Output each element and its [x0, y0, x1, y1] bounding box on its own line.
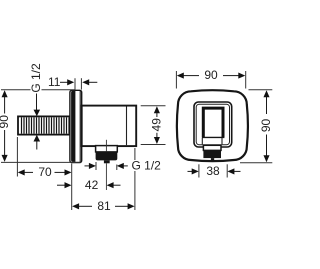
- centerline of outlet: [105, 140, 107, 152]
- outlet nub (side view) with G 1/2 thread: [96, 146, 118, 164]
- holder plate: [194, 102, 232, 147]
- extension line wall face: [71, 164, 73, 211]
- label G 1/2 (top, rotated) with leader to pipe: [29, 63, 43, 149]
- svg-text:11: 11: [48, 75, 61, 89]
- dimension 90 (top width): [176, 68, 245, 88]
- svg-text:42: 42: [85, 178, 99, 192]
- svg-text:70: 70: [38, 165, 52, 179]
- dimension 90 (left, escutcheon height): [0, 90, 81, 163]
- svg-text:90: 90: [259, 119, 273, 133]
- dimension 42 (wall to outlet center): [57, 178, 121, 192]
- dimension G 1/2 (outlet thread, bottom): [85, 159, 162, 173]
- body block (side view): [82, 106, 137, 147]
- threaded pipe G 1/2 (hatched): [18, 116, 71, 134]
- svg-text:90: 90: [0, 115, 11, 129]
- svg-text:G 1/2: G 1/2: [132, 159, 162, 173]
- escutcheon (wall plate, side view): [70, 90, 82, 162]
- holder slider (U shape): [203, 108, 223, 137]
- svg-text:90: 90: [204, 68, 218, 82]
- escutcheon plate (soft square): [177, 90, 248, 161]
- svg-text:49: 49: [149, 118, 163, 132]
- dimension 49 (body height): [141, 106, 166, 145]
- svg-text:38: 38: [206, 164, 220, 178]
- dimension 90 (right height): [240, 90, 273, 163]
- dimension 38 (holder width): [188, 164, 241, 178]
- svg-text:G 1/2: G 1/2: [29, 63, 43, 93]
- dimension 70 (pipe to wall face): [17, 137, 71, 179]
- outlet nub (front view): [203, 145, 221, 161]
- svg-text:81: 81: [97, 199, 111, 213]
- dimension 81 (wall to front): [72, 148, 135, 213]
- dimension 11 (escutcheon depth): [48, 75, 97, 90]
- holder plate inner line: [196, 104, 229, 145]
